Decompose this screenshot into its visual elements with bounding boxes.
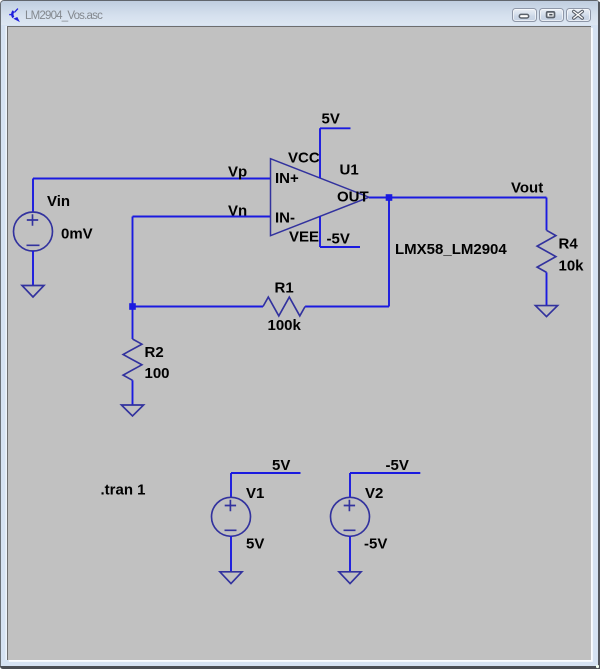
close button <box>566 8 591 22</box>
maximize button <box>539 8 564 22</box>
wire Vout down to R4 <box>546 198 548 231</box>
ground under V2 <box>339 572 361 584</box>
junction node at OUT <box>386 194 393 201</box>
V2 supply rail -5V <box>350 473 420 498</box>
minimize button <box>512 8 537 22</box>
svg-text:IN+: IN+ <box>275 170 299 187</box>
svg-text:100: 100 <box>145 365 170 382</box>
svg-text:U1: U1 <box>340 162 359 179</box>
ground under V1 <box>220 572 242 584</box>
maximize glyph <box>547 12 555 18</box>
wire V2 to ground <box>349 536 351 572</box>
svg-text:R1: R1 <box>275 280 294 297</box>
svg-text:10k: 10k <box>559 258 585 275</box>
svg-text:V1: V1 <box>246 485 264 502</box>
title bar <box>1 1 599 25</box>
svg-text:Vp: Vp <box>228 164 247 181</box>
window bottom edge <box>0 666 600 669</box>
VCC supply rail 5V <box>320 128 351 178</box>
svg-text:LMX58_LM2904: LMX58_LM2904 <box>395 241 507 258</box>
wire node to R1 <box>133 306 264 308</box>
ground under R4 <box>535 306 557 317</box>
wire node to R2 <box>132 307 134 340</box>
ground under R2 <box>121 405 143 416</box>
svg-text:-5V: -5V <box>386 457 409 474</box>
window right edge <box>598 2 600 669</box>
VEE supply rail -5V <box>320 216 360 247</box>
resistor R1 <box>263 297 305 316</box>
voltage source V2 <box>331 497 370 536</box>
svg-text:5V: 5V <box>322 111 340 128</box>
op-amp U1 triangle <box>271 159 370 236</box>
close glyph <box>574 11 583 18</box>
svg-text:Vin: Vin <box>47 193 70 210</box>
wire R2 to ground <box>132 380 134 405</box>
wire Vn from node to IN- <box>133 217 271 307</box>
svg-text:VEE: VEE <box>289 229 319 246</box>
svg-text:5V: 5V <box>272 457 290 474</box>
svg-text:IN-: IN- <box>275 210 295 227</box>
ground under Vin <box>22 286 44 298</box>
svg-text:OUT: OUT <box>337 189 369 206</box>
wire R4 to ground <box>546 272 548 305</box>
minimize glyph <box>519 14 528 18</box>
resistor R4 <box>537 230 556 272</box>
svg-text:Vout: Vout <box>511 180 543 197</box>
svg-text:Vn: Vn <box>228 203 247 220</box>
svg-text:.tran 1: .tran 1 <box>101 482 146 499</box>
svg-text:V2: V2 <box>365 485 383 502</box>
svg-text:-5V: -5V <box>364 536 387 553</box>
LTspice app icon <box>9 9 19 22</box>
svg-text:0mV: 0mV <box>61 226 93 243</box>
wire Vp from Vin to IN+ <box>33 179 271 213</box>
wire R1 to feedback corner <box>305 198 389 307</box>
svg-text:5V: 5V <box>246 536 264 553</box>
corner highlight dot <box>596 665 598 667</box>
title text LM2904_Vos.asc <box>25 10 102 22</box>
resistor R2 <box>123 339 142 380</box>
svg-text:VCC: VCC <box>288 150 320 167</box>
wire Vin to ground <box>32 251 34 286</box>
V1 supply rail 5V <box>231 473 301 498</box>
voltage source Vin <box>14 212 53 251</box>
junction node at R2 top <box>129 303 136 310</box>
svg-text:100k: 100k <box>268 317 302 334</box>
wire OUT to Vout <box>369 197 547 199</box>
svg-text:-5V: -5V <box>327 231 350 248</box>
voltage source V1 <box>212 497 251 536</box>
svg-text:R2: R2 <box>145 344 164 361</box>
svg-text:R4: R4 <box>559 236 579 253</box>
wire V1 to ground <box>230 536 232 572</box>
